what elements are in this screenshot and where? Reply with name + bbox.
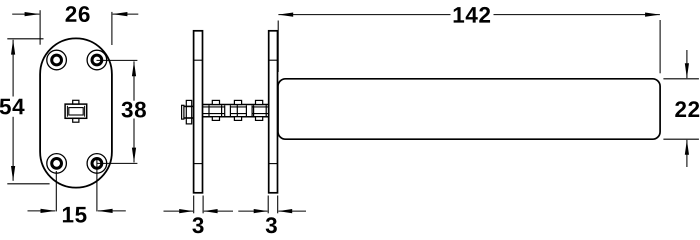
label 3 (plate 1) bbox=[192, 217, 203, 233]
rod flange tab 2 bbox=[234, 100, 241, 104]
label 22 bbox=[675, 101, 699, 117]
label 142 bbox=[454, 7, 490, 23]
dim 54 (plate height) bbox=[7, 39, 49, 184]
threaded rod stub (left of plate 1) bbox=[182, 100, 195, 124]
dim 38 (hole spacing vertical) bbox=[97, 60, 138, 163]
label 26 bbox=[66, 6, 90, 22]
threaded rod between plates bbox=[202, 100, 270, 120]
screw hole bottom-right bbox=[87, 154, 107, 174]
label 15 bbox=[63, 207, 87, 223]
label 3 (plate 2) bbox=[266, 217, 277, 233]
dim 22 (bar height) bbox=[663, 50, 699, 167]
rod flange tab 1 bbox=[212, 100, 219, 104]
rod sleeve 2 bbox=[246, 105, 252, 116]
mounting plate (front view, stadium outline) bbox=[40, 38, 112, 187]
dim 15 (hole spacing horizontal) bbox=[28, 158, 126, 211]
screw hole top-right bbox=[87, 50, 107, 70]
screw hole bottom-left bbox=[47, 154, 67, 174]
flat bar (side view) bbox=[278, 79, 660, 139]
side plate 1 bbox=[194, 31, 203, 193]
center boss (front view of rod socket) bbox=[65, 100, 87, 122]
rod flange tab 3 bbox=[256, 100, 263, 104]
dim 26 (plate width) bbox=[12, 10, 138, 45]
side plate 2 bbox=[269, 31, 278, 193]
rod sleeve 1 bbox=[225, 105, 231, 116]
screw hole top-left bbox=[47, 50, 67, 70]
dim 3 (plate 2 thickness) bbox=[238, 196, 306, 214]
nut edge dividers bbox=[209, 105, 266, 116]
label 38 bbox=[122, 102, 146, 118]
rod body lines bbox=[202, 104, 270, 106]
dim 142 (bar length) bbox=[278, 15, 660, 74]
label 54 bbox=[0, 99, 24, 115]
dim 3 (plate 1 thickness) bbox=[164, 196, 234, 214]
